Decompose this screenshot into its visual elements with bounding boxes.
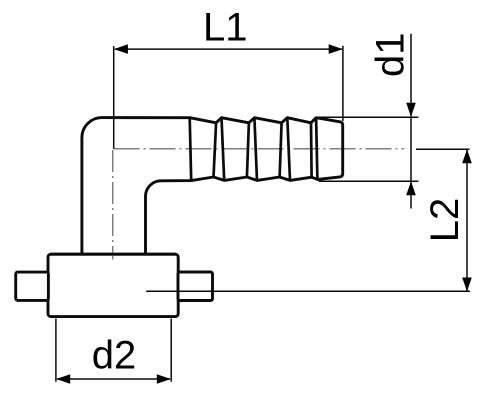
dimension d1 line xyxy=(410,34,412,209)
barb rim 4 xyxy=(280,118,290,181)
left tab xyxy=(16,272,49,300)
elbow fitting body outline xyxy=(82,118,343,256)
body block xyxy=(48,254,178,316)
centerline tail inside block xyxy=(112,256,114,260)
dimension d1 top arrow xyxy=(406,103,416,117)
centerline horizontal axis xyxy=(114,148,405,150)
dimension L1 left arrow xyxy=(114,44,128,54)
svg-text:d2: d2 xyxy=(92,334,137,378)
dimension L2 reference lines xyxy=(146,149,470,291)
dimension d2 right arrow xyxy=(157,374,171,384)
svg-text:d1: d1 xyxy=(369,33,413,78)
centerline vertical axis xyxy=(112,150,114,253)
dimension L2 line xyxy=(466,150,468,291)
dimension d2 line xyxy=(57,378,170,380)
svg-text:L1: L1 xyxy=(203,6,248,50)
right tab xyxy=(178,272,213,301)
dimension L2 bottom arrow xyxy=(462,278,472,292)
dimension d1 bottom arrow xyxy=(406,181,416,195)
barb rim 3 xyxy=(247,118,257,181)
dimension L1 line xyxy=(115,48,342,50)
dimension L1 extension lines xyxy=(114,46,343,149)
block top edge redraw xyxy=(50,253,176,256)
dimension d1 extension lines xyxy=(318,117,419,181)
dimension L2 top arrow xyxy=(462,149,472,163)
barb rim 1 xyxy=(190,118,192,181)
barb rim 5 xyxy=(311,118,317,180)
dimension d2 extension lines xyxy=(56,319,171,382)
dimension d2 left arrow xyxy=(56,374,70,384)
barb rim 2 xyxy=(214,118,225,181)
svg-text:L2: L2 xyxy=(423,198,467,243)
dimension L1 right arrow xyxy=(329,44,343,54)
